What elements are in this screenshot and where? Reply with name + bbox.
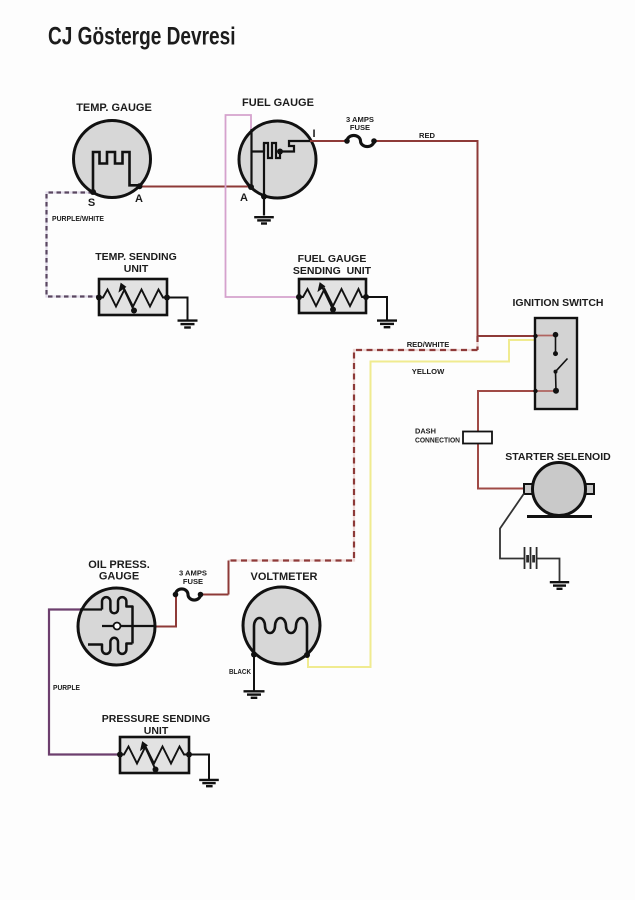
- ground: [550, 582, 569, 589]
- node right: [363, 294, 369, 300]
- left terminal: [524, 484, 534, 494]
- mounting base: [527, 515, 592, 518]
- node left: [251, 652, 257, 658]
- svg-text:CJ Gösterge Devresi: CJ Gösterge Devresi: [48, 23, 236, 51]
- ground stem: [253, 655, 255, 691]
- voltmeter: [229, 571, 320, 698]
- node right: [164, 295, 170, 301]
- svg-text:FUEL GAUGE: FUEL GAUGE: [242, 97, 314, 109]
- fuse F1 3 AMPS: [347, 135, 374, 146]
- temp gauge heater element: [93, 152, 140, 192]
- solenoid body: [533, 463, 586, 516]
- svg-text:FUSE: FUSE: [350, 123, 370, 132]
- svg-text:SENDING UNIT: SENDING UNIT: [293, 265, 372, 277]
- ground: [244, 691, 265, 698]
- node left: [117, 752, 123, 758]
- starter solenoid: [505, 451, 611, 517]
- rheostat zigzag: [299, 289, 366, 306]
- switch body: [535, 318, 577, 409]
- gauge body: [78, 588, 155, 665]
- wiper arrow: [145, 746, 156, 770]
- ground: [254, 217, 274, 223]
- battery: [525, 547, 537, 569]
- svg-text:S: S: [88, 197, 95, 209]
- switch arm: [556, 359, 568, 372]
- svg-text:A: A: [240, 192, 248, 204]
- voltmeter body: [243, 587, 320, 664]
- wire red (temp gauge A to fuel gauge A): [140, 186, 252, 188]
- wire purple (oil gauge to pressure sending unit): [49, 610, 120, 755]
- oil pressure gauge: [78, 559, 155, 665]
- temp gauge: [74, 102, 152, 209]
- svg-text:A: A: [135, 193, 143, 205]
- svg-text:GAUGE: GAUGE: [99, 571, 139, 583]
- resistor box: [120, 737, 189, 773]
- node A: [137, 183, 143, 189]
- node bottom: [261, 194, 267, 200]
- switch feed top: [535, 335, 556, 337]
- ground: [199, 780, 219, 786]
- fuel gauge inner wiring: [252, 129, 311, 187]
- svg-text:PURPLE/WHITE: PURPLE/WHITE: [52, 214, 104, 223]
- rheostat zigzag: [120, 747, 189, 764]
- wiper arrow: [322, 287, 333, 310]
- resistor box: [99, 279, 167, 315]
- wire red/white (junction to oil press fuse): [229, 336, 478, 561]
- pressure sending unit: [102, 713, 219, 786]
- wire red (ignition switch bottom to starter solenoid): [478, 391, 535, 489]
- node A: [248, 184, 254, 190]
- svg-text:PRESSURE SENDING: PRESSURE SENDING: [102, 713, 211, 725]
- node left: [96, 295, 102, 301]
- svg-text:YELLOW: YELLOW: [412, 367, 445, 376]
- svg-text:FUEL GAUGE: FUEL GAUGE: [298, 253, 367, 265]
- wire solenoid to battery: [500, 494, 524, 559]
- node right: [186, 752, 192, 758]
- svg-text:RED/WHITE: RED/WHITE: [407, 340, 450, 349]
- ground stem: [263, 143, 265, 216]
- fuel gauge sending unit: [293, 253, 397, 327]
- temp sending unit: [95, 251, 197, 328]
- node junction: [277, 149, 283, 155]
- wiper arrow: [123, 287, 134, 311]
- node S: [90, 189, 96, 195]
- temp gauge body: [74, 121, 151, 198]
- ground: [178, 321, 198, 328]
- wire pink (fuel gauge top to fuel sending unit): [226, 115, 300, 297]
- wire yellow (ignition switch to voltmeter): [308, 340, 535, 667]
- svg-text:UNIT: UNIT: [144, 725, 169, 737]
- fuel gauge: [239, 97, 316, 224]
- wire purple/white (temp gauge S to temp sending unit): [47, 193, 100, 297]
- svg-text:TEMP. SENDING: TEMP. SENDING: [95, 251, 177, 263]
- svg-text:TEMP. GAUGE: TEMP. GAUGE: [76, 102, 152, 114]
- svg-text:BLACK: BLACK: [229, 667, 252, 676]
- svg-text:IGNITION SWITCH: IGNITION SWITCH: [513, 297, 604, 309]
- ignition switch: [513, 297, 604, 409]
- switch feed bottom: [535, 390, 556, 392]
- node right: [304, 652, 310, 658]
- wire red (oil gauge through fuse to red/white): [155, 595, 229, 627]
- svg-text:I: I: [312, 128, 315, 140]
- switch contacts: [555, 335, 557, 354]
- feed line: [80, 608, 102, 610]
- connector box: [463, 432, 492, 444]
- fuel gauge body: [239, 121, 316, 198]
- coil element: [254, 618, 307, 655]
- resistor box: [299, 279, 366, 313]
- svg-text:DASH: DASH: [415, 427, 436, 436]
- node left: [296, 294, 302, 300]
- wire red (fuel gauge I through fuse to ignition switch): [310, 141, 535, 336]
- wire to ground: [189, 755, 209, 780]
- right terminal: [585, 484, 595, 494]
- ground: [377, 321, 397, 328]
- center line: [102, 625, 155, 627]
- svg-text:OIL PRESS.: OIL PRESS.: [88, 559, 150, 571]
- svg-text:RED: RED: [419, 131, 436, 140]
- wire battery to ground: [537, 559, 560, 582]
- svg-text:VOLTMETER: VOLTMETER: [250, 571, 317, 583]
- fuse F2 3 AMPS: [176, 589, 201, 600]
- wire to ground: [167, 298, 188, 320]
- svg-text:CONNECTION: CONNECTION: [415, 436, 460, 445]
- upper element: [102, 597, 133, 643]
- dash connection: [415, 427, 492, 445]
- lower element: [88, 638, 133, 654]
- svg-text:UNIT: UNIT: [124, 263, 149, 275]
- rheostat zigzag: [99, 290, 167, 307]
- svg-text:PURPLE: PURPLE: [53, 683, 80, 692]
- wire to ground: [366, 297, 387, 320]
- center pivot ring: [114, 623, 121, 630]
- svg-text:FUSE: FUSE: [183, 577, 203, 586]
